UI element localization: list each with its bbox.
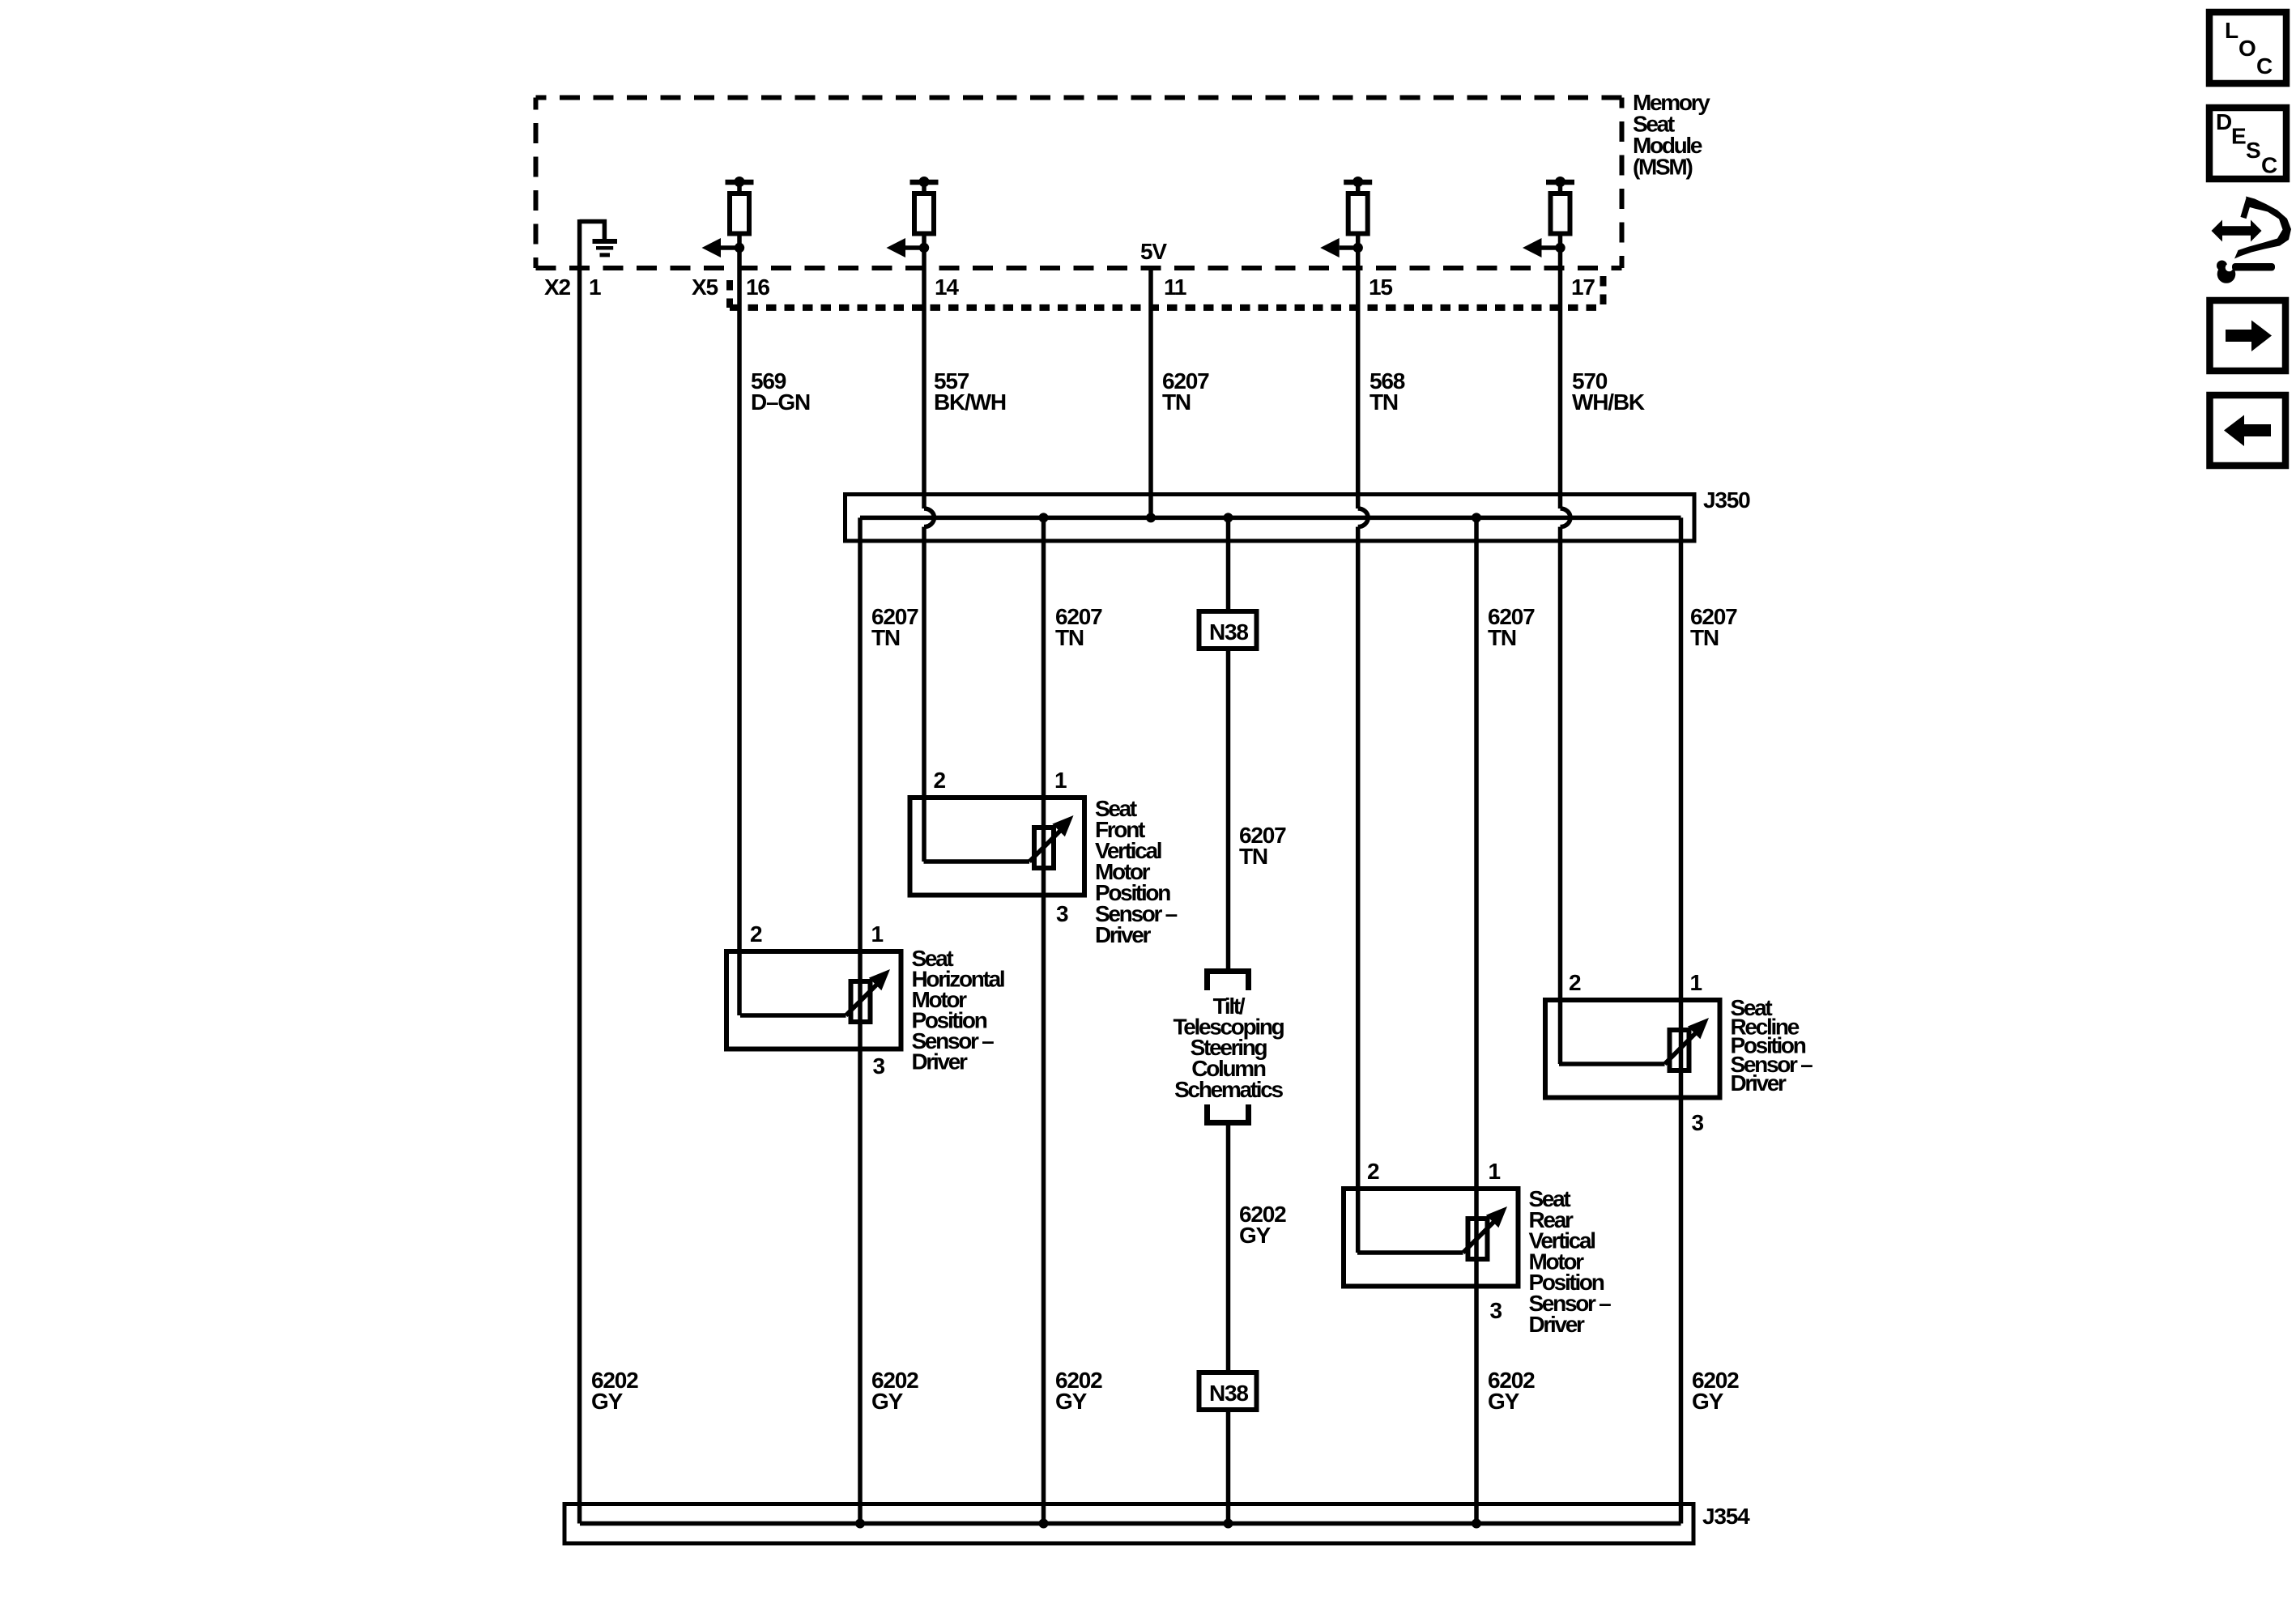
potentiometer inside Seat Rear Vertical Motor Position Sensor - Driver (1357, 1206, 1507, 1259)
svg-text:N38: N38 (1209, 1381, 1248, 1406)
svg-text:E: E (2231, 124, 2246, 149)
svg-text:TN: TN (1055, 625, 1084, 650)
svg-text:11: 11 (1164, 274, 1186, 300)
Seat Horizontal Motor Position Sensor - Driver box (726, 951, 901, 1049)
wire 6207 TN (J350 to rear vertical sensor pin 1, then 6202 GY to J354) (1474, 517, 1479, 1523)
svg-text:TN: TN (871, 625, 900, 650)
svg-text:1: 1 (1690, 970, 1702, 995)
svg-text:16: 16 (746, 274, 769, 300)
svg-text:2: 2 (750, 921, 762, 947)
wire label 6207 TN (circuit 6207 tan) (1162, 368, 1209, 415)
label: Tilt/Telescoping Steering Column Schematics (1174, 994, 1284, 1102)
potentiometer inside Seat Recline Position Sensor - Driver (1559, 1018, 1709, 1070)
svg-text:TN: TN (1239, 844, 1267, 869)
pin labels 2 / 1 / 3 of Seat Recline Position Sensor - Driver (1569, 970, 1704, 1135)
svg-text:L: L (2225, 18, 2238, 43)
J354 junction dots (855, 1519, 1481, 1529)
label: Seat Rear Vertical Motor Position Sensor &#8211; Driver (1529, 1186, 1612, 1337)
icon DESC (description view) (2209, 108, 2286, 179)
potentiometer inside Seat Horizontal Motor Position Sensor - Driver (740, 969, 890, 1022)
wire label 6202 GY (circuit 6202 gray col5) (1488, 1368, 1535, 1414)
wire label 6207 TN (circuit 6207 tan below J350 second) (1055, 604, 1102, 650)
icon LOC (location view) (2209, 12, 2286, 83)
wire 6207 TN (J350 to horizontal sensor pin 1, then 6202 GY to J354) (858, 517, 863, 1523)
node N38 (upper) (1199, 611, 1257, 649)
wire label 6202 GY (circuit 6202 gray right) (1692, 1368, 1739, 1414)
svg-text:GY: GY (591, 1389, 624, 1414)
svg-text:Driver: Driver (912, 1049, 969, 1074)
wire 6207 TN (J350 to front vertical sensor pin 1, then 6202 GY to J354) (1042, 517, 1046, 1523)
svg-text:C: C (2256, 53, 2273, 79)
svg-text:GY: GY (871, 1389, 904, 1414)
wire label 6207 TN (circuit 6207 tan below J350 fourth) (1488, 604, 1535, 650)
svg-text:3: 3 (1490, 1298, 1502, 1323)
wire label 6207 TN (circuit 6207 tan center) (1239, 823, 1286, 869)
wire 569 D-GN (pin 16 to horizontal sensor pin 2) (737, 248, 742, 1015)
svg-text:J354: J354 (1702, 1504, 1750, 1529)
label: Memory Seat Module (MSM) (1633, 90, 1710, 180)
svg-text:TN: TN (1690, 625, 1719, 650)
pin labels 2 / 1 / 3 of Seat Horizontal Motor Position Sensor - Driver (750, 921, 885, 1079)
wire label 6202 GY (circuit 6202 gray col3) (1055, 1368, 1102, 1414)
svg-text:BK/WH: BK/WH (934, 389, 1006, 415)
svg-text:GY: GY (1239, 1223, 1272, 1248)
svg-text:3: 3 (1056, 901, 1068, 926)
signal arrow at pin 17 (points left) (1523, 238, 1565, 257)
wire label 6207 TN (circuit 6207 tan below J350 right) (1690, 604, 1737, 650)
svg-text:X5: X5 (692, 274, 718, 300)
svg-text:2: 2 (1569, 970, 1581, 995)
svg-text:5V: 5V (1140, 239, 1167, 264)
resistor 16 (MSM internal pull-up at pin 16) (726, 177, 754, 248)
ground (MSM internal, pin X2-1) (580, 222, 617, 255)
resistor 14 (MSM internal pull-up at pin 14) (910, 177, 939, 248)
connector X5 dotted outline (730, 276, 1604, 308)
icon back arrow (2210, 395, 2286, 466)
Seat Front Vertical Motor Position Sensor - Driver box (910, 798, 1085, 896)
svg-text:3: 3 (1692, 1110, 1704, 1135)
svg-text:Driver: Driver (1731, 1070, 1787, 1096)
off-page connector to steering column schematics (top bracket) (1208, 972, 1249, 991)
svg-text:X2: X2 (544, 274, 570, 300)
Seat Recline Position Sensor - Driver box (1545, 1000, 1720, 1098)
icon harness repair (double arrow, connector outline, wrench) (2212, 197, 2292, 283)
svg-text:TN: TN (1488, 625, 1516, 650)
svg-text:Driver: Driver (1095, 922, 1152, 947)
J350 bus bar (860, 516, 1681, 521)
svg-text:GY: GY (1692, 1389, 1724, 1414)
svg-text:N38: N38 (1209, 619, 1248, 645)
svg-text:1: 1 (589, 274, 601, 300)
wire 6207 TN (pin 11 5V feed to J350) (1148, 268, 1153, 517)
svg-text:TN: TN (1162, 389, 1191, 415)
off-page connector return (bottom bracket) (1208, 1104, 1249, 1123)
svg-text:GY: GY (1488, 1389, 1520, 1414)
wire 570 WH/BK (pin 17 to recline sensor pin 2, hops J350 bus) (1561, 248, 1570, 1064)
svg-text:2: 2 (934, 768, 946, 793)
potentiometer inside Seat Front Vertical Motor Position Sensor - Driver (924, 815, 1074, 868)
svg-text:WH/BK: WH/BK (1572, 389, 1645, 415)
wire 6207 TN (J350 right end through recline sensor pin 1 to J354) (1679, 517, 1684, 1523)
label: Seat Front Vertical Motor Position Sensor &#8211; Driver (1095, 796, 1178, 947)
label: Seat Recline Position Sensor &#8211; Driver (1731, 995, 1813, 1096)
splice pack J354 housing (564, 1504, 1693, 1544)
svg-text:1: 1 (1054, 768, 1067, 793)
svg-text:GY: GY (1055, 1389, 1088, 1414)
pin labels 2 / 1 / 3 of Seat Front Vertical Motor Position Sensor - Driver (934, 768, 1069, 926)
wire label 6207 TN (circuit 6207 tan below J350 left) (871, 604, 918, 650)
svg-text:TN: TN (1370, 389, 1398, 415)
resistor 15 (MSM internal pull-up at pin 15) (1344, 177, 1372, 248)
wire 557 BK/WH (pin 14 to front vertical sensor pin 2, hops J350 bus) (924, 248, 934, 862)
wire label 557 BK/WH (circuit 557 black/white) (934, 368, 1006, 415)
connector pin labels X2 1 X5 16 14 11 15 17 (544, 274, 1595, 300)
svg-text:Driver: Driver (1529, 1312, 1586, 1337)
svg-text:S: S (2246, 138, 2260, 163)
wire label 6202 GY (circuit 6202 gray center) (1239, 1202, 1286, 1248)
svg-text:D–GN: D–GN (751, 389, 810, 415)
signal arrow at pin 16 (points left) (702, 238, 745, 257)
wire label 6202 GY (circuit 6202 gray ground return left) (591, 1368, 638, 1414)
wire label 568 TN (circuit 568 tan) (1370, 368, 1405, 415)
J354 bus bar (580, 1521, 1681, 1526)
wire X2-1 ground return (left vertical, to J354 bus) (577, 219, 582, 1524)
svg-text:J350: J350 (1703, 487, 1750, 513)
svg-text:2: 2 (1367, 1159, 1379, 1184)
svg-text:14: 14 (935, 274, 959, 300)
svg-text:17: 17 (1571, 274, 1595, 300)
node N38 (lower) (1199, 1372, 1257, 1410)
signal arrow at pin 14 (points left) (887, 238, 930, 257)
wire 568 TN (pin 15 to rear vertical sensor pin 2, hops J350 bus) (1358, 248, 1368, 1253)
wire label 6202 GY (circuit 6202 gray col2) (871, 1368, 918, 1414)
label: Seat Horizontal Motor Position Sensor &#8211; Driver (912, 946, 1004, 1074)
svg-text:Schematics: Schematics (1174, 1077, 1283, 1102)
wire 6207 TN / 6202 GY (J350 to N38 and steering column) (1226, 517, 1231, 1523)
icon forward arrow (2210, 300, 2286, 371)
svg-text:C: C (2261, 153, 2277, 178)
splice pack J350 housing (846, 495, 1695, 542)
wire label 569 D&#8211;GN (circuit 569 dark green) (751, 368, 810, 415)
svg-text:1: 1 (871, 921, 884, 947)
signal arrow at pin 15 (points left) (1320, 238, 1363, 257)
svg-text:O: O (2238, 36, 2256, 61)
Memory Seat Module (MSM) dashed outline (536, 98, 1622, 269)
svg-text:D: D (2216, 109, 2232, 134)
pin labels 2 / 1 / 3 of Seat Rear Vertical Motor Position Sensor - Driver (1367, 1159, 1502, 1323)
svg-text:3: 3 (873, 1053, 885, 1079)
wire label 570 WH/BK (circuit 570 white/black) (1572, 368, 1645, 415)
svg-text:1: 1 (1489, 1159, 1501, 1184)
resistor 17 (MSM internal pull-up at pin 17) (1546, 177, 1574, 248)
J350 junction dots (1039, 513, 1482, 522)
Seat Rear Vertical Motor Position Sensor - Driver box (1344, 1189, 1519, 1287)
svg-text:(MSM): (MSM) (1633, 155, 1692, 180)
svg-text:15: 15 (1369, 274, 1392, 300)
